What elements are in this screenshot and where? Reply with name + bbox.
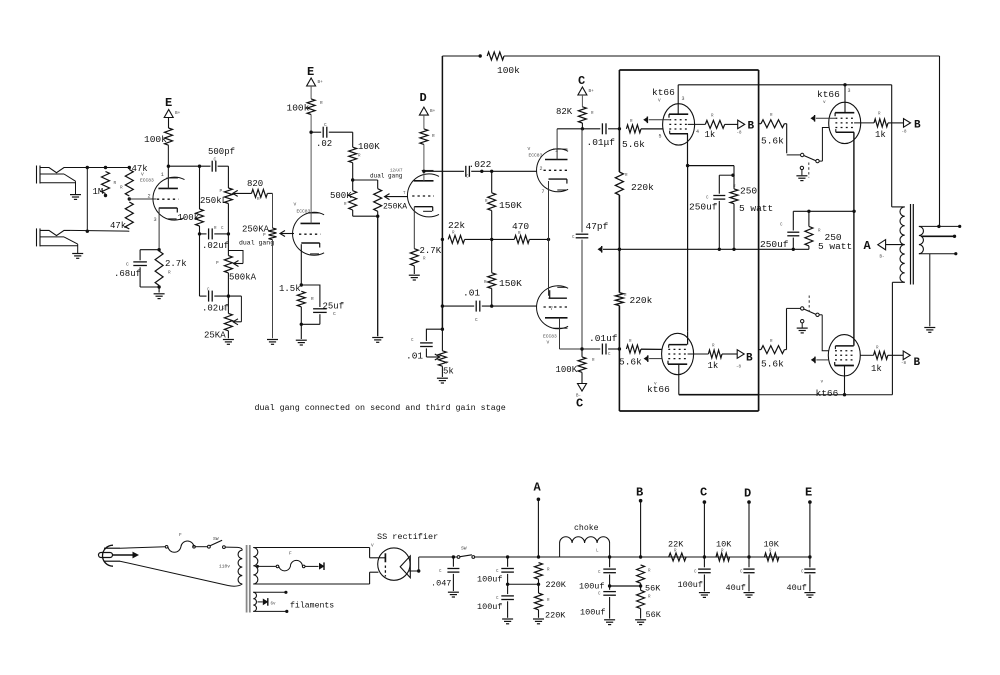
svg-text:5: 5 (659, 134, 662, 140)
svg-text:1.5k: 1.5k (279, 284, 301, 294)
svg-text:.68uf: .68uf (114, 269, 141, 279)
svg-text:R: R (114, 181, 117, 186)
svg-text:V: V (294, 202, 297, 208)
svg-text:2.7K: 2.7K (420, 246, 442, 256)
svg-text:kt66: kt66 (816, 388, 839, 399)
svg-text:C: C (324, 123, 327, 128)
svg-text:2: 2 (540, 166, 543, 172)
svg-text:A: A (534, 481, 542, 495)
svg-text:500kA: 500kA (229, 273, 257, 283)
svg-text:V: V (141, 172, 144, 178)
svg-text:1k: 1k (708, 361, 719, 371)
svg-text:.01: .01 (463, 288, 480, 299)
svg-text:B+: B+ (589, 89, 595, 94)
svg-text:filaments: filaments (290, 601, 334, 611)
svg-text:3: 3 (154, 217, 157, 223)
svg-text:500K: 500K (330, 191, 352, 201)
svg-text:dual gang: dual gang (370, 173, 403, 180)
svg-text:C: C (126, 262, 129, 268)
svg-text:B: B (746, 353, 753, 365)
svg-text:40uf: 40uf (787, 583, 807, 593)
svg-text:250kL: 250kL (200, 196, 227, 206)
svg-text:47k: 47k (110, 221, 126, 231)
svg-text:SW: SW (213, 536, 219, 542)
svg-text:v: v (823, 100, 826, 105)
svg-text:V: V (528, 146, 531, 152)
svg-text:kt66: kt66 (647, 384, 670, 395)
svg-text:B-: B- (880, 256, 885, 260)
svg-text:E: E (307, 65, 314, 79)
svg-text:R: R (120, 186, 123, 191)
svg-text:E: E (805, 486, 812, 500)
svg-text:C: C (475, 318, 478, 323)
svg-text:1k: 1k (875, 130, 886, 140)
svg-text:100uf: 100uf (477, 575, 503, 585)
svg-text:100k: 100k (144, 134, 167, 145)
svg-text:ECC83: ECC83 (529, 153, 543, 159)
svg-text:q: q (222, 306, 225, 311)
svg-text:2: 2 (148, 194, 151, 200)
svg-text:-8: -8 (902, 131, 908, 135)
svg-text:R: R (168, 271, 171, 276)
svg-text:SW: SW (461, 546, 467, 552)
svg-text:1: 1 (161, 172, 164, 178)
svg-text:B: B (914, 120, 921, 132)
svg-text:47k: 47k (132, 164, 148, 174)
svg-text:ECC83: ECC83 (140, 178, 154, 184)
svg-text:7: 7 (542, 189, 545, 195)
svg-text:4: 4 (696, 129, 699, 135)
svg-text:-8: -8 (736, 366, 742, 370)
svg-text:22K: 22K (668, 540, 684, 550)
svg-text:C: C (578, 74, 585, 88)
svg-text:C: C (214, 158, 217, 163)
svg-text:5.6k: 5.6k (761, 359, 784, 370)
svg-text:500pf: 500pf (208, 147, 235, 157)
svg-text:SS rectifier: SS rectifier (377, 532, 438, 542)
svg-text:P: P (216, 261, 219, 266)
svg-text:B+: B+ (318, 80, 324, 85)
svg-text:F: F (289, 551, 292, 557)
svg-text:choke: choke (574, 523, 599, 533)
svg-text:25KA: 25KA (204, 331, 226, 341)
svg-text:5.6k: 5.6k (761, 136, 784, 147)
svg-text:5.6k: 5.6k (619, 357, 642, 368)
svg-text:110v: 110v (219, 564, 230, 570)
svg-text:82K: 82K (556, 107, 573, 117)
svg-text:.02uf: .02uf (202, 304, 229, 314)
svg-text:E: E (165, 96, 172, 110)
svg-text:470: 470 (512, 221, 529, 232)
svg-text:-8: -8 (901, 362, 907, 366)
svg-text:5k: 5k (443, 367, 454, 377)
svg-text:D: D (744, 487, 751, 501)
svg-text:dual gang: dual gang (239, 240, 274, 247)
svg-text:dual gang connected on second: dual gang connected on second and third … (255, 403, 506, 413)
svg-text:100K: 100K (556, 365, 578, 375)
svg-text:250KA: 250KA (383, 203, 407, 212)
svg-text:220K: 220K (545, 610, 566, 620)
svg-text:2.7k: 2.7k (165, 259, 187, 269)
svg-text:.047: .047 (431, 579, 451, 589)
svg-text:R: R (432, 134, 435, 139)
svg-text:R: R (257, 197, 260, 202)
svg-text:P: P (220, 189, 223, 194)
svg-text:.022: .022 (469, 159, 492, 170)
svg-text:25uf: 25uf (323, 302, 345, 312)
svg-text:5.6k: 5.6k (622, 139, 645, 150)
svg-text:.02uf: .02uf (202, 241, 229, 251)
svg-text:C: C (576, 397, 583, 411)
svg-text:v: v (821, 380, 824, 385)
svg-text:820: 820 (247, 179, 263, 189)
svg-text:kt66: kt66 (817, 89, 840, 100)
svg-text:A: A (864, 239, 872, 253)
svg-text:F: F (179, 532, 182, 538)
svg-text:3: 3 (848, 88, 851, 94)
svg-text:ECC83: ECC83 (543, 334, 557, 340)
svg-text:100k: 100k (178, 213, 200, 223)
svg-text:C: C (700, 486, 707, 500)
svg-text:220k: 220k (631, 182, 654, 193)
svg-text:150K: 150K (499, 278, 522, 289)
svg-text:ECC83: ECC83 (297, 209, 311, 215)
svg-text:.01uf: .01uf (589, 333, 618, 344)
svg-text:.02: .02 (316, 139, 332, 149)
svg-text:B: B (748, 121, 755, 133)
svg-text:5 watt: 5 watt (818, 241, 852, 252)
svg-text:10K: 10K (716, 540, 732, 550)
svg-text:100uf: 100uf (580, 608, 606, 618)
svg-text:100uf: 100uf (477, 602, 503, 612)
svg-text:100uf: 100uf (579, 582, 605, 592)
svg-text:250: 250 (740, 186, 757, 197)
svg-text:100K: 100K (358, 142, 380, 152)
svg-text:150K: 150K (499, 200, 522, 211)
svg-text:47pf: 47pf (586, 221, 609, 232)
svg-text:D: D (420, 91, 427, 105)
svg-text:R: R (320, 101, 323, 106)
svg-text:56K: 56K (646, 610, 662, 620)
svg-text:1M: 1M (93, 187, 104, 197)
svg-text:100uf: 100uf (678, 580, 704, 590)
svg-text:kt66: kt66 (652, 87, 675, 98)
svg-text:12AX7: 12AX7 (390, 170, 403, 174)
svg-text:6v: 6v (271, 603, 277, 607)
svg-text:C: C (333, 311, 336, 317)
svg-text:-8: -8 (737, 132, 743, 136)
svg-text:250uf: 250uf (689, 202, 718, 213)
svg-text:40uf: 40uf (726, 583, 746, 593)
svg-text:B: B (914, 357, 921, 369)
svg-text:V: V (658, 99, 661, 104)
svg-text:56K: 56K (645, 584, 661, 594)
svg-text:1k: 1k (705, 130, 716, 140)
svg-text:C: C (466, 175, 469, 180)
svg-text:B+: B+ (430, 109, 436, 114)
svg-text:5 watt: 5 watt (739, 203, 773, 214)
svg-text:v: v (654, 382, 657, 387)
svg-text:.01: .01 (406, 351, 423, 362)
svg-text:B+: B+ (175, 111, 181, 116)
svg-text:.01μf: .01μf (587, 137, 616, 148)
svg-text:220K: 220K (546, 580, 567, 590)
svg-text:P: P (263, 233, 266, 238)
svg-text:1k: 1k (871, 364, 882, 374)
svg-text:R: R (311, 297, 314, 302)
svg-text:V: V (547, 340, 550, 346)
svg-text:220k: 220k (630, 295, 653, 306)
svg-text:22k: 22k (448, 220, 465, 231)
svg-text:250uf: 250uf (760, 239, 789, 250)
svg-text:7: 7 (550, 306, 553, 312)
svg-text:V: V (371, 544, 374, 549)
svg-text:100k: 100k (497, 65, 520, 76)
svg-text:3: 3 (682, 96, 685, 102)
svg-text:100k: 100k (287, 103, 310, 114)
svg-text:10K: 10K (764, 540, 780, 550)
svg-text:B: B (636, 486, 643, 500)
